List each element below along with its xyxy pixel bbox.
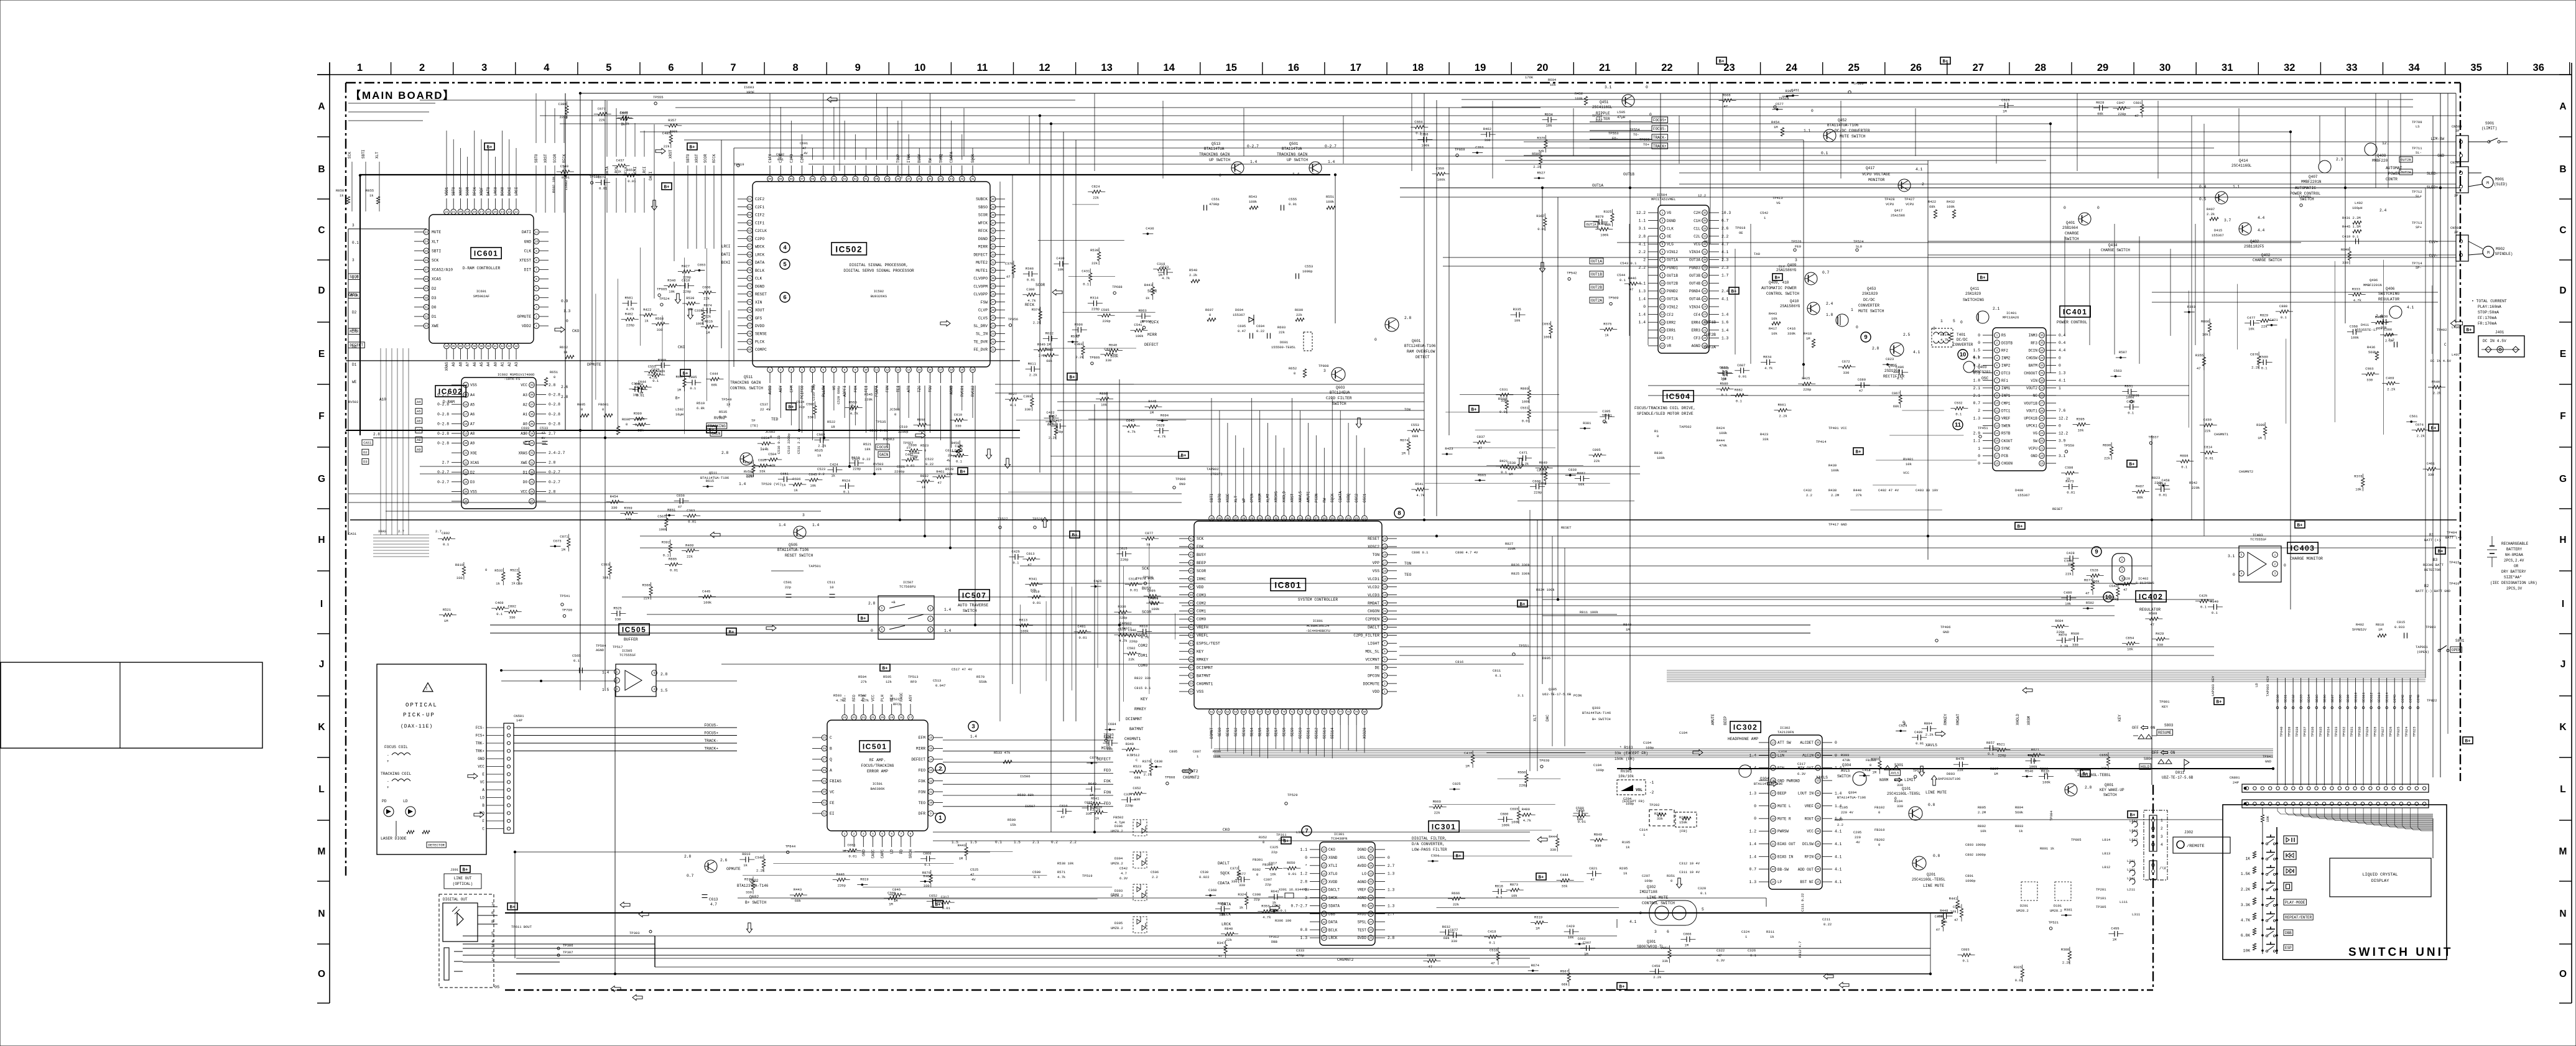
svg-text:5: 5 (1662, 243, 1664, 246)
svg-text:3: 3 (2161, 835, 2163, 839)
svg-text:220p: 220p (626, 323, 634, 327)
svg-text:C816: C816 (1455, 660, 1463, 664)
svg-text:BUSY: BUSY (1197, 553, 1206, 557)
svg-text:CDATA: CDATA (1338, 491, 1343, 502)
svg-text:7: 7 (1384, 642, 1386, 646)
svg-text:0: 0 (1649, 113, 1652, 117)
svg-text:SEG3: SEG3 (1242, 728, 1246, 737)
svg-text:22: 22 (1771, 856, 1775, 859)
svg-text:SEG7: SEG7 (1274, 728, 1279, 737)
svg-text:R533 47k: R533 47k (994, 751, 1011, 755)
svg-text:23: 23 (1322, 929, 1326, 932)
svg-text:0-2.8: 0-2.8 (437, 412, 449, 417)
svg-text:45: 45 (1190, 570, 1193, 573)
svg-text:2.8: 2.8 (549, 461, 556, 465)
svg-text:TP428: TP428 (1884, 197, 1895, 201)
svg-text:CAPC: CAPC (881, 849, 885, 859)
svg-text:C205: C205 (1853, 830, 1861, 835)
svg-text:S803: S803 (2164, 723, 2174, 728)
svg-text:Q304: Q304 (1842, 763, 1851, 767)
svg-text:D-RAM CONTROLLER: D-RAM CONTROLLER (463, 266, 501, 271)
svg-text:B1: B1 (2429, 533, 2434, 537)
svg-text:49: 49 (886, 178, 889, 181)
svg-text:SPSL: SPSL (1358, 920, 1367, 924)
svg-text:R818: R818 (1495, 884, 1503, 888)
svg-text:35: 35 (1369, 857, 1373, 860)
svg-text:GND: GND (524, 239, 532, 244)
svg-text:B+: B+ (1942, 60, 1948, 65)
svg-text:0.01: 0.01 (670, 568, 679, 573)
svg-text:47: 47 (2197, 366, 2201, 371)
main board dash-dot outline (346, 83, 2460, 990)
svg-text:C416: C416 (1787, 326, 1795, 331)
svg-text:IC302: IC302 (1780, 726, 1791, 730)
svg-text:R443: R443 (958, 843, 966, 848)
svg-text:1: 1 (1197, 754, 1199, 759)
svg-text:XRCHG: XRCHG (1274, 491, 1279, 502)
svg-text:1.3: 1.3 (1388, 904, 1395, 908)
svg-text:RESUME: RESUME (2158, 731, 2172, 735)
svg-text:R651: R651 (550, 370, 558, 374)
svg-text:GND: GND (1943, 630, 1950, 634)
svg-text:GND: GND (2265, 759, 2272, 764)
svg-text:FB301: FB301 (1253, 858, 1263, 862)
svg-text:XRST: XRST (695, 154, 699, 163)
svg-text:5FPB52V: 5FPB52V (2352, 627, 2367, 632)
svg-text:IC302: IC302 (1733, 723, 1758, 732)
svg-text:4.7k: 4.7k (626, 307, 635, 312)
svg-text:C437: C437 (616, 158, 624, 162)
svg-text:CHGMNT1: CHGMNT1 (1124, 737, 1141, 741)
svg-text:0.1: 0.1 (1013, 560, 1020, 565)
svg-text:C533: C533 (1720, 366, 1728, 370)
svg-text:2: 2 (853, 833, 855, 836)
svg-text:0.1: 0.1 (1501, 470, 1508, 474)
svg-text:RS: RS (2001, 333, 2006, 338)
svg-text:Q414: Q414 (2239, 159, 2248, 163)
svg-text:C602: C602 (776, 152, 784, 157)
svg-text:PLLSW: PLLSW (822, 386, 826, 397)
svg-text:0.1: 0.1 (573, 659, 580, 663)
svg-text:FON: FON (919, 790, 926, 794)
svg-text:FOCUS-: FOCUS- (1653, 127, 1667, 131)
svg-text:MUTE1: MUTE1 (976, 269, 988, 273)
svg-text:+: + (387, 785, 389, 790)
svg-text:R649: R649 (2341, 248, 2349, 252)
svg-text:1.3: 1.3 (1749, 792, 1757, 796)
svg-text:TP833: TP833 (2334, 726, 2338, 737)
svg-text:TC9438FN: TC9438FN (1331, 836, 1347, 841)
svg-text:TP513: TP513 (908, 675, 919, 679)
svg-text:2SA1586YG: 2SA1586YG (1776, 268, 1797, 272)
svg-text:R694: R694 (1161, 413, 1169, 417)
svg-text:OSC1: OSC1 (1363, 493, 1367, 502)
svg-text:30: 30 (1703, 259, 1707, 262)
svg-text:XGND: XGND (1328, 856, 1338, 860)
svg-text:3: 3 (1323, 369, 1326, 373)
svg-text:47: 47 (1629, 287, 1634, 292)
svg-text:R393: R393 (1786, 89, 1794, 93)
IC IC302 headphone amp (1728, 721, 1842, 889)
svg-text:36: 36 (2533, 62, 2544, 73)
svg-text:OE: OE (1739, 231, 1743, 235)
svg-text:TP576: TP576 (1791, 239, 1802, 244)
svg-text:23: 23 (852, 716, 856, 720)
svg-text:4.1: 4.1 (1913, 350, 1920, 354)
svg-text:C555: C555 (1289, 197, 1297, 201)
svg-text:1.3: 1.3 (1300, 936, 1308, 940)
svg-text:0.1: 0.1 (2261, 366, 2268, 371)
svg-text:L111: L111 (2120, 900, 2128, 904)
svg-text:2.4: 2.4 (1826, 302, 1833, 306)
svg-text:47: 47 (2150, 623, 2154, 627)
svg-text:9: 9 (1384, 626, 1386, 629)
svg-text:TP303: TP303 (629, 931, 640, 935)
svg-text:IC402: IC402 (2139, 593, 2164, 601)
svg-text:0.1: 0.1 (2200, 605, 2207, 609)
svg-text:32: 32 (991, 262, 995, 265)
svg-text:D3: D3 (352, 328, 357, 332)
svg-text:330: 330 (1451, 939, 1457, 943)
svg-text:2.2k: 2.2k (2417, 433, 2425, 438)
svg-text:R873: R873 (1510, 882, 1518, 887)
svg-text:22 4V: 22 4V (760, 407, 771, 412)
svg-text:C577: C577 (1776, 102, 1784, 106)
svg-text:TP542: TP542 (1567, 271, 1577, 275)
svg-text:64: 64 (1234, 711, 1238, 714)
svg-text:0: 0 (1878, 843, 1880, 847)
svg-text:• TOTAL CURRENT: • TOTAL CURRENT (2472, 299, 2507, 303)
svg-text:DIT: DIT (524, 268, 532, 272)
svg-text:17: 17 (939, 369, 943, 372)
svg-text:C645: C645 (808, 473, 817, 477)
svg-text:4: 4 (1996, 357, 1998, 360)
svg-text:10: 10 (830, 585, 834, 590)
svg-text:B: B (2559, 164, 2566, 175)
svg-text:R374: R374 (744, 877, 753, 881)
svg-text:RMKEY: RMKEY (1197, 657, 1208, 662)
svg-text:1.3: 1.3 (1639, 289, 1646, 294)
svg-text:330: 330 (1134, 797, 1140, 802)
svg-text:0: 0 (2233, 573, 2235, 577)
svg-text:0-2.8: 0-2.8 (437, 442, 449, 446)
svg-text:R658: R658 (917, 417, 925, 422)
svg-text:0: 0 (1754, 804, 1756, 808)
svg-text:DAC: DAC (1545, 715, 1550, 721)
svg-text:33: 33 (991, 254, 995, 257)
svg-text:WDCK: WDCK (755, 245, 764, 249)
svg-text:UMZ8.2: UMZ8.2 (1111, 861, 1123, 866)
svg-text:C653: C653 (1542, 322, 1550, 326)
svg-text:!: ! (425, 687, 428, 691)
net labels OUT1A OUT1B OUT2B OUT2A (1590, 258, 1603, 303)
svg-text:14: 14 (1661, 313, 1664, 317)
svg-text:Q602: Q602 (749, 895, 759, 899)
svg-text:DIGITAL SIGNAL PROCESSOR,: DIGITAL SIGNAL PROCESSOR, (850, 263, 908, 267)
svg-text:0.1: 0.1 (1127, 753, 1134, 757)
svg-text:(TEST): (TEST) (1210, 472, 1223, 476)
svg-text:330: 330 (1897, 783, 1903, 787)
svg-text:MIRR: MIRR (916, 747, 925, 751)
svg-text:220p: 220p (2110, 597, 2118, 601)
svg-text:TC7555SF: TC7555SF (619, 653, 636, 657)
switch S801 open detect (2352, 620, 2465, 654)
svg-text:12: 12 (514, 211, 518, 214)
svg-text:C323 0.1: C323 0.1 (1270, 909, 1287, 913)
svg-text:34: 34 (991, 246, 995, 249)
svg-text:C393: C393 (1023, 394, 1031, 399)
svg-text:0.1: 0.1 (1489, 940, 1496, 945)
svg-text:2.8: 2.8 (868, 601, 876, 606)
svg-text:UMZ8.2: UMZ8.2 (1111, 894, 1123, 898)
svg-text:3: 3 (1933, 326, 1935, 331)
svg-text:B+: B+ (860, 617, 866, 622)
svg-text:13: 13 (896, 369, 900, 372)
svg-text:57: 57 (800, 178, 804, 181)
svg-text:FB202: FB202 (1874, 838, 1885, 842)
svg-text:0-2.8: 0-2.8 (437, 422, 449, 426)
svg-text:R640: R640 (1088, 782, 1096, 786)
svg-text:35: 35 (2040, 342, 2044, 345)
svg-text:15: 15 (1995, 440, 1999, 443)
svg-text:52: 52 (854, 178, 858, 181)
svg-text:RSTB: RSTB (2001, 432, 2011, 436)
svg-text:SBTI: SBTI (1210, 494, 1214, 502)
svg-text:OUT4B: OUT4B (1689, 282, 1700, 286)
svg-text:24: 24 (464, 481, 468, 484)
svg-text:VCPU: VCPU (1906, 202, 1914, 206)
svg-text:TP520 (VC): TP520 (VC) (761, 482, 782, 486)
svg-text:0.8: 0.8 (1300, 928, 1308, 932)
svg-text:C489: C489 (1914, 730, 1922, 734)
ground and test point symbols (348, 75, 2312, 805)
svg-text:C821: C821 (1589, 866, 1598, 871)
svg-text:L402: L402 (2355, 201, 2363, 205)
svg-text:R819: R819 (860, 877, 868, 882)
svg-text:2.8: 2.8 (1404, 316, 1412, 320)
charge switch Q401 (2062, 206, 2130, 252)
svg-text:RFCK: RFCK (978, 229, 988, 233)
svg-text:DTC3: DTC3 (2001, 371, 2011, 376)
svg-text:A7: A7 (470, 422, 475, 427)
svg-text:6: 6 (1667, 930, 1669, 934)
svg-text:XLT: XLT (375, 152, 379, 159)
svg-text:R651: R651 (626, 168, 635, 172)
svg-text:1: 1 (2059, 386, 2061, 391)
svg-text:21: 21 (991, 349, 995, 352)
svg-text:3: 3 (491, 951, 494, 955)
svg-text:A7: A7 (466, 362, 470, 367)
svg-text:470k: 470k (1719, 443, 1728, 448)
svg-text:TP555: TP555 (653, 95, 664, 100)
svg-text:22k: 22k (2261, 325, 2268, 329)
svg-text:VSS: VSS (470, 383, 477, 387)
svg-text:22k: 22k (1594, 459, 1601, 463)
svg-text:SEG13: SEG13 (2377, 692, 2381, 703)
svg-text:MDL_SL: MDL_SL (1365, 650, 1379, 654)
svg-text:1.8: 1.8 (1826, 313, 1833, 317)
svg-text:4.4: 4.4 (2059, 348, 2066, 353)
net labels FOCUS TRACK right (1590, 110, 1668, 149)
svg-text:17: 17 (1661, 337, 1664, 340)
svg-text:ERR2: ERR2 (1667, 320, 1676, 325)
svg-text:65: 65 (748, 230, 752, 233)
svg-text:Q305: Q305 (1549, 687, 1557, 692)
svg-text:1.4: 1.4 (944, 629, 952, 633)
svg-text:C802 1000p: C802 1000p (1965, 853, 1986, 857)
svg-text:RAGC: RAGC (899, 692, 904, 701)
svg-text:33k: 33k (1763, 437, 1769, 442)
svg-text:TP312: TP312 (1269, 935, 1279, 939)
svg-text:29: 29 (530, 481, 534, 484)
svg-text:*: * (1305, 864, 1307, 868)
svg-text:TON: TON (1404, 407, 1411, 412)
svg-text:OUT2B: OUT2B (2401, 158, 2411, 162)
svg-text:1.2: 1.2 (1749, 830, 1757, 834)
svg-text:R469: R469 (685, 543, 693, 547)
svg-text:1M: 1M (677, 387, 682, 392)
svg-text:TP522: TP522 (889, 697, 900, 701)
svg-text:22k: 22k (1957, 768, 1964, 772)
svg-text:R866: R866 (2201, 319, 2209, 323)
svg-text:C533: C533 (540, 426, 548, 430)
svg-text:0.01: 0.01 (1288, 872, 1297, 876)
svg-text:INM3: INM3 (2029, 333, 2038, 338)
svg-text:XRST: XRST (669, 149, 673, 159)
svg-text:B+: B+ (2216, 700, 2222, 705)
svg-text:0.1: 0.1 (1897, 376, 1904, 381)
svg-text:N: N (318, 909, 325, 919)
svg-text:RECHG BATT: RECHG BATT (2423, 563, 2444, 567)
svg-text:C525: C525 (970, 868, 978, 872)
svg-text:TP413: TP413 (1772, 196, 1783, 200)
svg-text:0.1: 0.1 (1700, 891, 1707, 896)
svg-text:UM28.2: UM28.2 (2016, 909, 2029, 913)
svg-text:M: M (2487, 251, 2490, 255)
svg-text:34: 34 (530, 433, 534, 436)
svg-text:TP557: TP557 (903, 441, 914, 445)
svg-text:66: 66 (748, 238, 752, 241)
svg-text:7: 7 (1662, 259, 1664, 262)
svg-text:220p: 220p (1538, 481, 1546, 486)
svg-text:12.2: 12.2 (2059, 432, 2068, 436)
svg-text:0: 0 (1374, 338, 1377, 342)
svg-text:SQCK: SQCK (1220, 871, 1230, 876)
svg-text:TP406: TP406 (1940, 625, 1951, 629)
svg-text:220p: 220p (1120, 558, 1128, 562)
svg-text:32: 32 (1816, 792, 1820, 795)
svg-text:AVDD: AVDD (768, 386, 772, 395)
svg-text:C368: C368 (1208, 888, 1216, 892)
svg-text:IC801: IC801 (1313, 619, 1323, 623)
svg-text:1.4: 1.4 (1328, 160, 1335, 164)
svg-text:SEG10: SEG10 (2354, 692, 2358, 703)
svg-text:ERROR AMP: ERROR AMP (867, 769, 888, 774)
svg-text:C531 2.2: C531 2.2 (797, 438, 801, 454)
svg-text:G: G (318, 474, 325, 484)
svg-text:OPMUTE: OPMUTE (517, 315, 531, 319)
svg-text:LD: LD (480, 796, 485, 800)
svg-text:0.1: 0.1 (496, 612, 503, 616)
left mid region labels (348, 244, 1716, 774)
svg-text:SEG14: SEG14 (2385, 692, 2389, 703)
svg-text:0: 0 (1978, 461, 1980, 466)
svg-text:BTA114TUA: BTA114TUA (1204, 147, 1225, 151)
svg-text:XRDF: XRDF (480, 187, 484, 196)
svg-text:SCK: SCK (432, 259, 439, 263)
svg-text:B+: B+ (935, 903, 941, 908)
svg-text:TEST: TEST (1358, 928, 1367, 932)
svg-text:DEFECT: DEFECT (1144, 343, 1159, 347)
svg-text:L311: L311 (2132, 912, 2141, 917)
capacitor C551 R543 network (1189, 195, 1335, 283)
svg-text:2.2: 2.2 (1837, 823, 1843, 827)
svg-text:4: 4 (2161, 843, 2163, 847)
svg-text:A6: A6 (417, 419, 421, 423)
svg-text:4.7k: 4.7k (1027, 299, 1036, 303)
wire bus top band (360, 93, 2460, 197)
svg-text:RFIN: RFIN (1805, 855, 1814, 859)
svg-text:C2PD_FILTER: C2PD_FILTER (1353, 634, 1379, 638)
svg-text:VCPU: VCPU (1886, 202, 1894, 206)
svg-text:1M: 1M (2044, 772, 2048, 776)
svg-text:6: 6 (783, 294, 786, 301)
svg-text:RMKEY: RMKEY (1944, 714, 1948, 725)
svg-text:75: 75 (748, 309, 752, 312)
svg-text:1X: 1X (726, 402, 731, 407)
svg-text:R333: R333 (2352, 287, 2360, 291)
svg-text:-10TK-FS: -10TK-FS (504, 377, 521, 381)
svg-text:58: 58 (790, 178, 794, 181)
svg-text:RFCK: RFCK (712, 154, 716, 163)
svg-text:47: 47 (1006, 274, 1011, 279)
svg-text:24: 24 (1771, 881, 1775, 884)
svg-text:2.2: 2.2 (1152, 875, 1158, 879)
svg-text:OPMUTE: OPMUTE (726, 867, 741, 871)
svg-text:1k: 1k (1605, 333, 1609, 338)
svg-text:220p: 220p (683, 289, 691, 294)
svg-text:C335: C335 (695, 308, 703, 313)
svg-text:22p: 22p (1271, 850, 1277, 854)
svg-text:3: 3 (1662, 228, 1664, 231)
svg-text:7.6: 7.6 (2059, 409, 2066, 413)
svg-text:(OPTICAL): (OPTICAL) (453, 882, 473, 886)
svg-text:C861: C861 (619, 111, 628, 116)
svg-text:35: 35 (991, 238, 995, 241)
svg-text:C2H: C2H (1693, 211, 1700, 215)
svg-text:D306: D306 (1114, 824, 1123, 828)
svg-text:R810: R810 (2376, 623, 2384, 627)
svg-text:C414: C414 (2157, 482, 2166, 486)
svg-text:FCAPA: FCAPA (875, 386, 879, 397)
svg-text:A4: A4 (486, 362, 491, 367)
svg-text:FEI: FEI (864, 386, 868, 392)
svg-text:Q417: Q417 (1894, 208, 1902, 213)
svg-text:100k: 100k (2029, 765, 2038, 769)
svg-text:27k: 27k (1856, 493, 1863, 498)
svg-text:TZC: TZC (917, 386, 922, 392)
svg-text:4: 4 (535, 297, 537, 300)
svg-text:22k: 22k (705, 315, 711, 319)
svg-text:TP611 BOUT: TP611 BOUT (511, 925, 532, 929)
svg-text:10k/10k: 10k/10k (1618, 774, 1634, 779)
svg-text:R446: R446 (1628, 276, 1636, 280)
svg-text:AGND: AGND (1692, 344, 1701, 348)
svg-text:33k: 33k (1662, 959, 1669, 963)
svg-text:21: 21 (464, 452, 468, 455)
svg-text:B+: B+ (2017, 525, 2023, 530)
svg-text:B+: B+ (2082, 772, 2088, 777)
